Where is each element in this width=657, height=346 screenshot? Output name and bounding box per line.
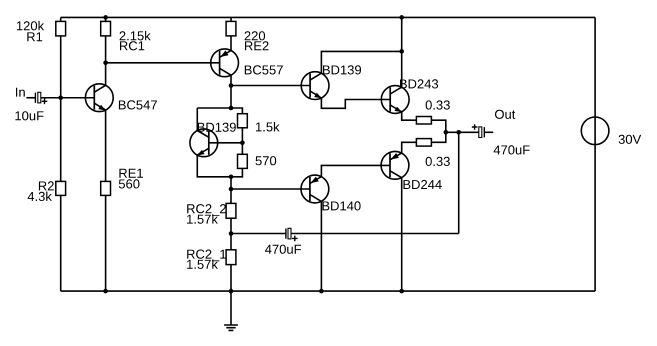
capacitor 470uF bootstrap bbox=[286, 228, 298, 241]
label BD243 bbox=[400, 79, 438, 88]
label R1 bbox=[27, 32, 42, 41]
wire R1 top lead bbox=[60, 17, 62, 21]
wire 570 bottom jog bbox=[231, 168, 242, 176]
voltage source V1 30V bbox=[581, 117, 609, 145]
wire top supply rail bbox=[61, 16, 595, 18]
transistor Q3 BD139 (bias, mirrored) bbox=[190, 129, 218, 157]
label BD139 driver bbox=[323, 65, 361, 74]
label RC2_1 bbox=[187, 250, 226, 262]
resistor RE2 bbox=[226, 21, 236, 36]
wire 0.33 upper to out node bbox=[431, 120, 445, 132]
node bias bottom bbox=[229, 174, 234, 179]
label 30V bbox=[619, 135, 642, 144]
wire 470uF cap to output riser bbox=[291, 233, 459, 235]
resistor R1 bbox=[56, 21, 66, 36]
transistor Q6 BD140 bbox=[301, 175, 329, 203]
resistor RC2_2 bbox=[226, 203, 236, 218]
wire BD243 emitter to 0.33 bbox=[402, 112, 417, 120]
label 470uF output bbox=[494, 145, 530, 154]
resistor 1.5k bbox=[238, 114, 248, 128]
wire BD140 collector to ground rail bbox=[320, 201, 322, 291]
resistor RE1 bbox=[101, 181, 111, 195]
transistor Q5 BD243 bbox=[381, 86, 409, 114]
label BC557 bbox=[245, 65, 283, 74]
node BC557 collector bbox=[229, 83, 234, 88]
wire bias network top jog bbox=[197, 108, 242, 114]
wire Out port lead bbox=[485, 131, 493, 133]
wire BC547 emitter to RE1 bbox=[105, 110, 107, 181]
label R2 bbox=[39, 181, 54, 190]
label RE2 bbox=[245, 41, 269, 50]
wire input cap to BC547 base bbox=[41, 97, 95, 99]
label BD139 bias bbox=[198, 123, 236, 132]
wire BD243 collector to top rail bbox=[401, 17, 403, 87]
label RC1 value 2.15k bbox=[120, 31, 151, 41]
transistor Q4 BD139 (driver) bbox=[301, 72, 329, 100]
wire In port lead bbox=[26, 97, 35, 99]
label 570 bbox=[256, 156, 277, 165]
node BD244 collector rail bbox=[399, 289, 404, 294]
resistor 0.33 upper bbox=[416, 117, 431, 125]
resistor R2 bbox=[56, 181, 66, 195]
wire BC557 collector to BD139 base (right) bbox=[231, 85, 310, 87]
label R1 value 120k bbox=[17, 21, 44, 31]
label RC2_2 value 1.57k bbox=[187, 214, 218, 224]
node RC2 mid bbox=[229, 231, 234, 236]
node output bbox=[456, 130, 461, 135]
wire bias bottom node to BD140 base row bbox=[230, 177, 232, 204]
capacitor 10uF input bbox=[35, 92, 47, 104]
node ground rail center bbox=[229, 289, 234, 294]
label 10uF bbox=[15, 111, 43, 120]
label RC2_2 bbox=[187, 204, 226, 216]
label 1.5k bbox=[256, 122, 280, 132]
node 0.33 join bbox=[444, 130, 449, 135]
label 0.33 lower bbox=[426, 157, 450, 166]
wire BD139 driver emitter to BD243 base bbox=[321, 98, 390, 108]
wire BD139 emitter stub (left) bbox=[197, 155, 231, 177]
ground bbox=[224, 291, 238, 330]
node BC557 base tap bbox=[103, 61, 108, 66]
node BD140 base bbox=[229, 187, 234, 192]
wire right supply rail bbox=[594, 17, 596, 291]
label BD244 bbox=[404, 180, 442, 189]
wire bottom ground rail bbox=[61, 290, 595, 292]
label RE1 bbox=[119, 169, 143, 178]
wire RC2 node to 470uF cap bbox=[231, 233, 285, 235]
node BD139/BD243 collector bbox=[399, 49, 404, 54]
wire RC2_1 to ground rail bbox=[230, 265, 232, 292]
wire RE1 bottom lead bbox=[105, 195, 107, 291]
resistor 570 bbox=[238, 154, 248, 168]
node input bbox=[58, 95, 63, 100]
label BC547 bbox=[119, 100, 157, 109]
wire BD139 driver collector to node bbox=[321, 51, 401, 73]
wire BD244 emitter to 0.33 lower bbox=[402, 142, 417, 153]
wire RE2 top lead bbox=[230, 17, 232, 21]
transistor Q7 BD244 bbox=[381, 151, 409, 179]
capacitor 470uF output bbox=[472, 124, 485, 137]
label RE2 value 220 bbox=[245, 31, 266, 40]
wire output riser bbox=[458, 132, 460, 233]
wire RC1 to BC547 collector bbox=[105, 36, 107, 85]
wire BD140 emitter to BD244 base bbox=[321, 165, 390, 176]
label Out port bbox=[495, 110, 515, 119]
transistor Q2 BC557 bbox=[211, 49, 239, 77]
label In port bbox=[16, 88, 25, 97]
wire RC2_2 to RC2_1 bbox=[230, 218, 232, 250]
wire BD139 collector stub (left) bbox=[196, 108, 198, 131]
label 470uF bootstrap bbox=[265, 245, 301, 254]
node BD140 collector rail bbox=[319, 289, 324, 294]
node RC1 top rail junction bbox=[103, 15, 108, 20]
label BD140 bbox=[323, 201, 361, 210]
label RC2_1 value 1.57k bbox=[187, 259, 218, 269]
wire 0.33 lower to out node bbox=[431, 132, 445, 142]
wire RE2 to BC557 emitter bbox=[230, 36, 232, 51]
wire R1 bottom to R2 bbox=[60, 36, 62, 182]
wire out node to output cap bbox=[446, 131, 479, 133]
wire RC1 tap to BC557 base bbox=[106, 62, 220, 64]
wire divider mid to BD139 base (left) bbox=[209, 142, 243, 144]
node bias top bbox=[229, 106, 234, 111]
wire BC557 collector down bbox=[230, 75, 232, 108]
wire R2 bottom lead bbox=[60, 195, 62, 291]
transistor Q1 BC547 bbox=[85, 84, 113, 112]
label R2 value 4.3k bbox=[28, 192, 52, 202]
wire 1.5k to 570 bbox=[241, 128, 243, 154]
node RE1 bottom rail bbox=[103, 289, 108, 294]
wire BD140 base bbox=[231, 188, 310, 190]
label RE1 value 560 bbox=[119, 179, 140, 188]
label RC1 bbox=[120, 41, 144, 50]
wire BD244 collector to ground rail bbox=[401, 178, 403, 291]
label 0.33 upper bbox=[426, 100, 450, 109]
resistor RC1 bbox=[101, 21, 111, 36]
resistor RC2_1 bbox=[226, 250, 236, 265]
wire RC1 top lead bbox=[105, 17, 107, 21]
node divider mid bbox=[240, 140, 245, 145]
resistor 0.33 lower bbox=[416, 139, 431, 147]
node BD243 top rail junction bbox=[399, 15, 404, 20]
